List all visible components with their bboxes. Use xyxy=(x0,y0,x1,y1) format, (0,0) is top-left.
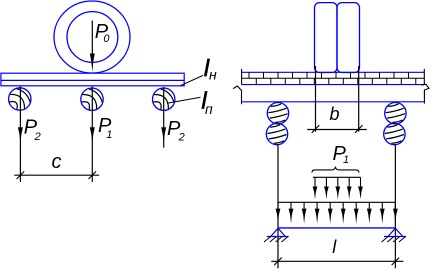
svg-text:2: 2 xyxy=(34,131,41,143)
svg-text:1: 1 xyxy=(106,129,112,141)
svg-text:c: c xyxy=(52,151,62,173)
svg-text:0: 0 xyxy=(103,33,110,45)
svg-text:п: п xyxy=(205,101,213,117)
svg-text:l: l xyxy=(332,237,337,257)
svg-text:1: 1 xyxy=(343,154,349,166)
svg-text:2: 2 xyxy=(178,132,185,144)
svg-text:н: н xyxy=(209,67,217,83)
svg-text:b: b xyxy=(330,104,340,124)
